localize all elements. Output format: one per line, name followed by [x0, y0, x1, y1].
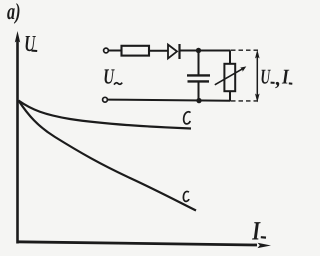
curve c lower: [19, 101, 197, 211]
y-axis: [15, 31, 20, 244]
terminal top-left: [104, 48, 109, 53]
y-axis label U_: [24, 31, 37, 56]
resistor: [122, 46, 150, 56]
curve C upper: [19, 101, 192, 129]
x-axis: [17, 242, 272, 248]
wire bottom: [107, 100, 230, 101]
svg-text:I: I: [281, 65, 289, 89]
x-axis label I_: [251, 216, 266, 246]
wire top (terminal to resistor): [109, 50, 122, 52]
svg-text:U: U: [260, 65, 271, 89]
svg-text:a): a): [7, 0, 21, 24]
capacitor: [187, 51, 210, 102]
svg-text:I: I: [251, 216, 261, 246]
curve label c lower: [183, 191, 188, 201]
junction dot bottom: [196, 98, 201, 103]
terminal bottom-left: [103, 97, 108, 102]
svg-text:,: ,: [275, 66, 281, 90]
variable resistor arrow: [215, 66, 247, 84]
curve label C upper: [184, 112, 191, 124]
wire top (diode to right corner): [181, 50, 231, 52]
label U~: [103, 64, 122, 88]
dashed extension line top: [231, 49, 261, 51]
dashed extension line bottom: [231, 100, 261, 102]
label U_, I_: [260, 65, 292, 90]
dimension line U_,I_: [255, 50, 260, 103]
svg-text:U: U: [103, 64, 115, 88]
svg-text:U: U: [24, 31, 36, 56]
diode: [168, 44, 180, 59]
variable resistor: [224, 51, 235, 102]
wire (resistor to diode): [149, 50, 168, 52]
junction dot top: [196, 48, 201, 53]
